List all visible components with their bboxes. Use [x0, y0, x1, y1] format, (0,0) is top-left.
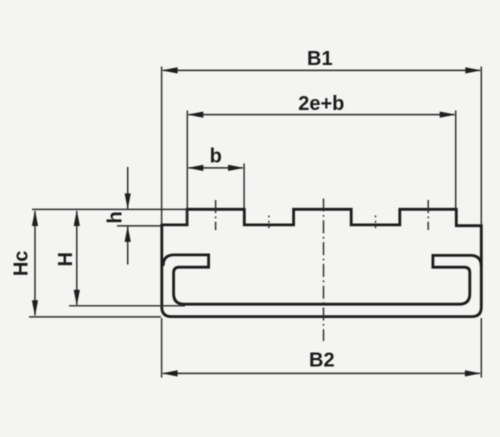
- svg-text:B2: B2: [309, 349, 335, 371]
- svg-text:Hc: Hc: [11, 251, 33, 277]
- svg-text:h: h: [104, 211, 126, 223]
- svg-text:b: b: [210, 146, 222, 168]
- svg-text:B1: B1: [307, 48, 333, 70]
- svg-text:2e+b: 2e+b: [298, 93, 344, 115]
- svg-text:H: H: [55, 252, 77, 266]
